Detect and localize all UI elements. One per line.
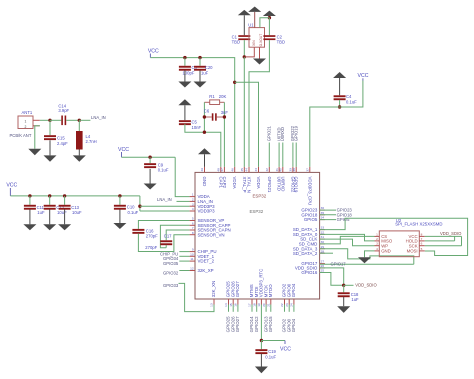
svg-text:45: 45 xyxy=(240,168,244,172)
wire SD_DATA_0 to U2 MISO xyxy=(320,234,375,241)
svg-text:0.1uF: 0.1uF xyxy=(265,355,276,360)
svg-text:C20: C20 xyxy=(205,65,213,70)
IC U2 SPI_FLASH X25XXSMD xyxy=(379,231,419,257)
wire C1 to XTAL_P node xyxy=(243,40,245,57)
pin 10 VDET_1 (left) xyxy=(190,255,195,257)
junction C6 right xyxy=(223,115,226,118)
ground above U1 (pin G top-left) xyxy=(254,12,256,28)
svg-text:ANT1: ANT1 xyxy=(22,110,33,115)
wire GPIO16 to C18 node xyxy=(320,273,344,286)
wire GPIO4 (bottom) xyxy=(293,305,295,312)
svg-text:VCC: VCC xyxy=(6,183,17,189)
wire XTAL_N from C2 to chip xyxy=(249,40,269,167)
svg-text:15: 15 xyxy=(229,303,233,307)
svg-text:CAP2: CAP2 xyxy=(222,177,227,189)
ground above C2/U1 (top-right) xyxy=(263,11,276,16)
svg-text:GPIO27: GPIO27 xyxy=(235,281,240,297)
ground below C18 xyxy=(343,297,345,306)
svg-text:3: 3 xyxy=(192,202,194,206)
svg-text:XIN: XIN xyxy=(252,40,256,46)
pin 42 GPIO21 (top) xyxy=(268,167,270,173)
pin 39 GPIO22 (top) xyxy=(292,167,294,173)
pin 9 CHIP_PU (left) xyxy=(190,251,195,253)
wire GPIO17 row xyxy=(320,263,414,265)
capacitor C18 1uF xyxy=(343,285,345,292)
pin 1 VDDA (left) xyxy=(190,196,195,198)
ground below C10 xyxy=(119,209,121,223)
svg-text:43: 43 xyxy=(254,168,258,172)
svg-text:GPIO21: GPIO21 xyxy=(267,177,272,193)
svg-text:VCC: VCC xyxy=(118,147,129,153)
svg-text:R1: R1 xyxy=(209,94,215,99)
junction C19 / VCC xyxy=(260,339,263,342)
svg-text:47: 47 xyxy=(220,168,224,172)
svg-text:GPIO32: GPIO32 xyxy=(163,270,179,275)
pin 23 GPIO0 (bottom) xyxy=(288,299,290,305)
svg-text:10uF: 10uF xyxy=(72,210,82,215)
svg-text:1: 1 xyxy=(25,120,27,124)
wire SD_CLK to U2 WP xyxy=(320,239,375,246)
capacitor C3 100pF xyxy=(184,58,186,66)
svg-text:32K_XN: 32K_XN xyxy=(211,281,216,297)
pin 13 32K_XN (bottom) xyxy=(213,299,215,305)
svg-text:1uF: 1uF xyxy=(201,70,209,75)
wire CHIP_PU xyxy=(179,251,189,253)
ground below U2 xyxy=(358,257,371,263)
pin 2 LNA_IN (left) xyxy=(190,200,195,202)
pin 43 VDDA (top) xyxy=(258,167,260,173)
svg-text:VDD_SDIO: VDD_SDIO xyxy=(440,231,462,236)
ANT1 pin stubs xyxy=(33,119,40,121)
pin 35 GPIO18 (right) xyxy=(320,214,325,216)
svg-text:19: 19 xyxy=(257,303,261,307)
wire SCK to tie xyxy=(425,245,462,247)
junction C9 xyxy=(148,156,151,159)
capacitor C11 1uF xyxy=(29,196,31,205)
ground below L4 xyxy=(78,150,80,156)
junction C4 / VCC / VDD3P3_CPU xyxy=(339,100,341,107)
svg-text:GPIO27: GPIO27 xyxy=(235,316,240,332)
wire node B vertical to CAP2 xyxy=(223,102,225,167)
pin 14 GPIO25 (bottom) xyxy=(228,299,230,305)
capacitor C6 3nF (series) xyxy=(204,116,211,118)
svg-text:6: 6 xyxy=(421,242,423,246)
svg-text:XTAL_P: XTAL_P xyxy=(242,177,247,193)
wire GPIO34 to VDET_1 xyxy=(179,255,189,257)
wire ANT1 pin2 to ground xyxy=(35,126,40,149)
ground above C4 (flipped) xyxy=(333,72,346,78)
svg-text:LNA_IN: LNA_IN xyxy=(91,115,106,120)
U2 pin 3 WP xyxy=(375,245,380,247)
crystal U1 xyxy=(249,28,265,48)
svg-text:21: 21 xyxy=(267,303,271,307)
junction C6 left xyxy=(203,115,206,118)
svg-text:SD_DATA_2: SD_DATA_2 xyxy=(293,251,318,256)
svg-text:SENSOR_VN: SENSOR_VN xyxy=(198,232,225,237)
wire SENSOR_VP xyxy=(138,221,189,229)
svg-text:4: 4 xyxy=(376,247,378,251)
svg-text:32K_XP: 32K_XP xyxy=(198,268,214,273)
capacitor C17 270pF xyxy=(160,240,172,242)
svg-text:ESP32: ESP32 xyxy=(253,194,267,199)
svg-text:GPIO5: GPIO5 xyxy=(304,217,318,222)
U2 pin 4 GND xyxy=(375,250,380,252)
U2 pin 2 MISO xyxy=(375,240,380,242)
capacitor C16 270pF xyxy=(132,229,144,231)
svg-text:14: 14 xyxy=(224,303,228,307)
pin 15 GPIO26 (bottom) xyxy=(232,299,234,305)
wire ANT1 pin1 to C15 node xyxy=(40,119,50,121)
svg-text:MOSI: MOSI xyxy=(407,249,418,254)
svg-text:10nF: 10nF xyxy=(192,125,202,130)
svg-text:13: 13 xyxy=(210,303,214,307)
capacitor C2 TBD xyxy=(268,18,270,36)
svg-text:GPIO35: GPIO35 xyxy=(163,261,179,266)
pin 30 SD_CMD (right) xyxy=(320,243,325,245)
junction VDDA branch xyxy=(233,81,236,84)
wire C5 to CAP1 xyxy=(185,124,221,167)
svg-text:40: 40 xyxy=(279,168,283,172)
pin 32 SD_DATA_0 (right) xyxy=(320,233,325,235)
wire GPIO32 to 32K_XP xyxy=(179,270,189,272)
wire GPIO18 xyxy=(320,214,336,216)
svg-text:46: 46 xyxy=(230,168,234,172)
svg-text:33: 33 xyxy=(321,226,325,230)
wire GPIO21 (top) xyxy=(268,143,270,167)
svg-text:VCC: VCC xyxy=(148,49,159,55)
svg-text:SPI_FLASH X25XXSMD: SPI_FLASH X25XXSMD xyxy=(395,222,442,227)
svg-text:10: 10 xyxy=(190,252,194,256)
pin 44 XTAL_N (top) xyxy=(248,167,250,173)
svg-text:23: 23 xyxy=(285,303,289,307)
pin 7 SENSOR_CAPN (left) xyxy=(190,229,195,231)
wire top VCC rail xyxy=(150,58,234,167)
svg-text:31: 31 xyxy=(321,235,325,239)
svg-text:3nF: 3nF xyxy=(221,110,229,115)
svg-text:U1: U1 xyxy=(248,23,254,28)
svg-text:12: 12 xyxy=(190,267,194,271)
svg-text:5: 5 xyxy=(192,217,194,221)
svg-text:C13: C13 xyxy=(71,205,79,210)
wire GPIO12 (bottom) xyxy=(256,305,258,312)
ground below C11 xyxy=(29,209,31,224)
svg-text:2: 2 xyxy=(25,125,27,129)
svg-text:GPIO19: GPIO19 xyxy=(293,125,298,141)
wire to pin VDD3P3 (4) xyxy=(140,210,190,212)
svg-text:GPIO19: GPIO19 xyxy=(294,177,299,193)
svg-text:1: 1 xyxy=(192,193,194,197)
svg-text:8: 8 xyxy=(192,231,194,235)
wire VDD3P3_RTC down xyxy=(260,305,262,341)
svg-text:GPIO21: GPIO21 xyxy=(267,125,272,141)
svg-text:42: 42 xyxy=(265,168,269,172)
svg-text:MTDO: MTDO xyxy=(268,284,273,298)
svg-text:270pF: 270pF xyxy=(145,245,157,250)
pin 29 SD_DATA_3 (right) xyxy=(320,248,325,250)
ground above C5 (flipped) xyxy=(178,99,191,105)
capacitor C9 0.1uF xyxy=(149,157,151,163)
junction C10 xyxy=(118,194,121,197)
pin 34 GPIO5 (right) xyxy=(320,219,325,221)
svg-text:24: 24 xyxy=(290,303,294,307)
wire GPIO22 (top) xyxy=(292,143,294,167)
wire SD_CMD to U2 CS xyxy=(320,236,375,244)
ground below C9 xyxy=(149,169,151,184)
junction C11 xyxy=(28,194,31,197)
capacitor C5 10nF xyxy=(184,105,186,120)
wire XTAL_P to chip xyxy=(243,57,245,167)
capacitor C10 0.1uF xyxy=(119,196,121,205)
net label VDD_SDIO (C18) xyxy=(344,284,354,286)
ground below U1 xyxy=(253,59,266,65)
pin 31 SD_CLK (right) xyxy=(320,238,325,240)
svg-text:C19: C19 xyxy=(268,349,276,354)
capacitor C14 3.9pF (series) xyxy=(61,116,63,126)
svg-text:G.XOUT: G.XOUT xyxy=(259,34,263,47)
capacitor C12 10uF xyxy=(49,196,51,205)
svg-text:20K: 20K xyxy=(219,94,227,99)
svg-text:XTAL_N: XTAL_N xyxy=(247,177,252,193)
pin 41 U0TXD (top) xyxy=(278,167,280,173)
svg-text:VCC: VCC xyxy=(280,346,291,352)
ground at ANT1 pin2 xyxy=(28,149,41,155)
svg-text:0.1uF: 0.1uF xyxy=(346,99,357,104)
svg-text:7: 7 xyxy=(192,226,194,230)
inductor L4 2.7nH xyxy=(78,120,80,131)
svg-text:GPIO16: GPIO16 xyxy=(301,270,317,275)
svg-text:GND: GND xyxy=(381,249,391,254)
wire LNA_IN out xyxy=(79,119,90,121)
svg-text:7: 7 xyxy=(421,237,423,241)
pin 16 GPIO27 (bottom) xyxy=(237,299,239,305)
pin 24 GPIO4 (bottom) xyxy=(293,299,295,305)
wire to second VDDA pin xyxy=(235,82,259,167)
junction C12 xyxy=(48,194,51,197)
svg-text:44: 44 xyxy=(245,168,249,172)
wire GPIO14 (bottom) xyxy=(251,305,253,312)
wire rail down to VDD3P3 pins xyxy=(139,196,141,211)
pin 47 CAP2 (top) xyxy=(223,167,225,173)
svg-text:1uF: 1uF xyxy=(37,210,45,215)
capacitor C20 1uF xyxy=(199,58,201,66)
wire GPIO15 (bottom) xyxy=(270,305,272,312)
svg-text:1uF: 1uF xyxy=(351,297,359,302)
capacitor C4 0.1uF xyxy=(339,78,341,95)
svg-text:VCC: VCC xyxy=(358,73,369,79)
pin 18 MTDI (bottom) xyxy=(256,299,258,305)
pin 37 VDD3P3_CPU (top) xyxy=(309,167,311,173)
wire C16 to SENSOR_VN loop xyxy=(138,234,189,252)
wire C14 to L4 node xyxy=(66,119,79,121)
svg-text:GPIO12: GPIO12 xyxy=(254,316,259,332)
pin 3 VDD3P3 (left) xyxy=(190,205,195,207)
svg-text:38: 38 xyxy=(292,168,296,172)
svg-text:GPIO4: GPIO4 xyxy=(291,318,296,332)
IC ESP32 (U3) body xyxy=(195,172,320,299)
wire GPIO23 xyxy=(320,209,336,211)
wire HOLD to tie xyxy=(425,240,455,242)
svg-text:2: 2 xyxy=(192,198,194,202)
wire node A vertical xyxy=(203,102,205,132)
U2 pin 7 HOLD xyxy=(419,240,424,242)
svg-text:22: 22 xyxy=(280,303,284,307)
wire GPIO13 (bottom) xyxy=(265,305,267,312)
pin 49 GND (top) xyxy=(204,167,206,173)
pin 20 MTCK (bottom) xyxy=(265,299,267,305)
wire VCC to C4 node xyxy=(340,81,363,108)
wire to pin VDD3P3 (3) xyxy=(140,205,190,207)
pin 6 SENSOR_CAPP (left) xyxy=(190,224,195,226)
pin 48 CAP1 (top) xyxy=(220,167,222,173)
ground above chip GND pin (flipped) xyxy=(204,154,206,167)
svg-text:34: 34 xyxy=(321,216,325,220)
svg-text:L4: L4 xyxy=(86,134,91,139)
U2 pin 6 SCK xyxy=(419,245,424,247)
ground below C20 xyxy=(199,70,201,81)
ground below C12 xyxy=(49,209,51,224)
svg-text:36: 36 xyxy=(321,206,325,210)
resistor R1 20K xyxy=(204,101,209,103)
pin 19 VDD3P3_RTC (bottom) xyxy=(260,299,262,305)
svg-text:49: 49 xyxy=(200,168,204,172)
junction C20 xyxy=(198,56,201,59)
wire down to VDDA pin1 xyxy=(175,157,189,196)
wire GPIO33 to 32K_XN (bottom pin) xyxy=(179,283,215,311)
svg-text:9: 9 xyxy=(192,248,194,252)
capacitor C1 TBD xyxy=(243,15,245,35)
svg-text:18: 18 xyxy=(252,303,256,307)
svg-text:3: 3 xyxy=(376,242,378,246)
svg-text:C11: C11 xyxy=(37,205,45,210)
wire junction to U1 top pin xyxy=(260,18,270,28)
svg-text:0.1uF: 0.1uF xyxy=(128,210,139,215)
svg-text:20: 20 xyxy=(262,303,266,307)
junction C13 xyxy=(63,194,66,197)
svg-text:VDDA: VDDA xyxy=(256,177,261,189)
junction node A / C5 xyxy=(203,131,206,134)
wire GPIO25 (bottom) xyxy=(228,305,230,312)
wire GPIO19 (top) xyxy=(295,143,297,167)
ground below C19 xyxy=(260,354,262,367)
junction C2 top / U1 G xyxy=(268,16,271,19)
wire SD_DATA_1 to U2 MOSI (loop over top) xyxy=(320,218,468,255)
wire U0RXD (top) xyxy=(282,143,284,167)
pin 5 SENSOR_VP (left) xyxy=(190,220,195,222)
svg-text:35: 35 xyxy=(321,211,325,215)
wire SD_DATA_2 stub xyxy=(320,252,333,254)
svg-text:11: 11 xyxy=(190,257,193,261)
pin 26 VDD_SDIO (right) xyxy=(320,267,325,269)
pin 40 U0RXD (top) xyxy=(282,167,284,173)
svg-text:3.9pF: 3.9pF xyxy=(58,108,69,113)
connector ANT1 (PCB/K ANT) xyxy=(18,116,33,129)
pin 11 VDET_2 (left) xyxy=(190,260,195,262)
wire U2 GND to ground xyxy=(365,251,375,257)
svg-text:1: 1 xyxy=(376,232,378,236)
wire GPIO5 xyxy=(320,219,336,221)
capacitor C13 10uF xyxy=(64,196,66,205)
wire to VDD3P3_CPU pin xyxy=(310,107,340,167)
pin 46 VDDA (top) xyxy=(234,167,236,173)
svg-text:VDD_SDIO: VDD_SDIO xyxy=(355,283,377,288)
svg-text:270pF: 270pF xyxy=(146,233,158,238)
pin 33 SD_DATA_1 (right) xyxy=(320,229,325,231)
wire U0TXD (top) xyxy=(278,143,280,167)
capacitor C19 0.1uF xyxy=(260,341,262,350)
svg-text:C18: C18 xyxy=(351,292,359,297)
svg-text:GPIO15: GPIO15 xyxy=(268,316,273,332)
pin 25 GPIO16 (right) xyxy=(320,272,325,274)
pin 21 MTDO (bottom) xyxy=(270,299,272,305)
svg-text:0.1uF: 0.1uF xyxy=(158,168,169,173)
junction C18 xyxy=(342,284,345,287)
pin 36 GPIO23 (right) xyxy=(320,209,325,211)
U1 bottom ground pin xyxy=(259,47,261,58)
pin 8 SENSOR_VN (left) xyxy=(190,234,195,236)
pin 45 XTAL_P (top) xyxy=(243,167,245,173)
svg-text:TBD: TBD xyxy=(232,39,240,44)
wire SENSOR_CAPN xyxy=(166,230,189,240)
svg-text:ESP32: ESP32 xyxy=(250,209,264,214)
svg-text:VDD3P3: VDD3P3 xyxy=(198,209,216,214)
svg-text:GPIO17: GPIO17 xyxy=(331,262,347,267)
svg-text:4: 4 xyxy=(192,207,194,211)
svg-text:PCB/K ANT: PCB/K ANT xyxy=(10,133,32,138)
svg-text:5: 5 xyxy=(421,247,423,251)
wire GPIO26 (bottom) xyxy=(232,305,234,312)
svg-text:VDD3P3_CPU: VDD3P3_CPU xyxy=(307,177,312,206)
svg-text:VDDA: VDDA xyxy=(232,177,237,189)
wire SENSOR_CAPP loop xyxy=(160,225,189,247)
ground below C13 xyxy=(64,209,66,224)
wire VCC rail xyxy=(10,195,140,197)
svg-text:GPIO33: GPIO33 xyxy=(163,283,179,288)
junction XTAL_P / C1 / XIN xyxy=(243,55,246,58)
node C14/L4 junction xyxy=(78,119,81,122)
wire node to C14 xyxy=(50,119,61,121)
svg-text:U0RXD: U0RXD xyxy=(280,127,285,141)
pin 12 32K_XP (left) xyxy=(190,270,195,272)
U2 pin 8 VCC xyxy=(419,235,424,237)
svg-text:GPIO4: GPIO4 xyxy=(291,283,296,297)
svg-text:VDET_2: VDET_2 xyxy=(198,259,215,264)
svg-text:6: 6 xyxy=(192,221,194,225)
svg-text:LNA_IN: LNA_IN xyxy=(157,197,172,202)
svg-text:C17: C17 xyxy=(164,234,172,239)
svg-text:U0RXD: U0RXD xyxy=(280,177,285,192)
wire GPIO0 (bottom) xyxy=(288,305,290,312)
svg-text:GND: GND xyxy=(202,177,207,187)
junction C3 xyxy=(183,56,186,59)
ground below C3 xyxy=(184,70,186,81)
U2 pin 5 MOSI xyxy=(419,250,424,252)
svg-text:16: 16 xyxy=(234,303,238,307)
node antenna/C15 junction xyxy=(48,119,51,122)
junction VDD3P3 branch xyxy=(138,205,141,208)
U1 XIN pin to node xyxy=(245,47,254,57)
svg-text:100pF: 100pF xyxy=(183,70,195,75)
capacitor C15 2.4pF xyxy=(49,120,51,135)
wire SD_DATA_3 under U2 xyxy=(320,249,414,265)
pin 27 GPIO17 (right) xyxy=(320,263,325,265)
U2 pin 1 CS xyxy=(375,235,380,237)
svg-text:TBD: TBD xyxy=(277,39,285,44)
svg-text:C6: C6 xyxy=(204,108,210,113)
ground above C1 (flipped) xyxy=(238,10,251,15)
pin 38 GPIO19 (top) xyxy=(295,167,297,173)
svg-text:2.4pF: 2.4pF xyxy=(57,141,68,146)
pin 28 SD_DATA_2 (right) xyxy=(320,252,325,254)
